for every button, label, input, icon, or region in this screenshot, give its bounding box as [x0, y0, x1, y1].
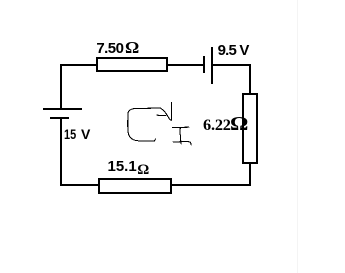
wire: left vertical upper (battery V1 to top-left corner) — [60, 64, 62, 108]
wire: bottom horizontal left (R3 to bottom-left corner) — [60, 184, 98, 186]
battery V1 short plate (negative) — [50, 117, 69, 119]
arrowhead vertical stroke — [170, 103, 172, 121]
current label I bottom bar — [173, 141, 188, 143]
current loop arrow curve — [128, 108, 161, 141]
label V2 value 9.5 V — [218, 43, 249, 58]
current label I stem — [180, 128, 181, 144]
label R1 value 7.50 Ω — [96, 40, 138, 57]
current label I top bar — [173, 126, 190, 128]
label R3 value 15.1 Ω — [108, 159, 150, 175]
wire: right vertical lower (R2 to bottom-right corner) — [249, 163, 251, 186]
resistor R3 (15.1 ohm) — [98, 178, 172, 194]
battery V2 short plate (negative) — [203, 56, 205, 73]
label V1 value 15 V — [64, 127, 90, 141]
arrowhead barb — [157, 114, 166, 116]
label R2 value 6.22 Ω — [203, 114, 247, 135]
wire: right vertical upper (corner to R2) — [249, 64, 251, 94]
wire: bottom horizontal right (corner to R3) — [170, 184, 251, 186]
wire: left vertical lower (corner to battery V1) — [60, 117, 62, 186]
wire: R1 to battery V2 — [168, 64, 203, 66]
battery V1 long plate (positive) — [43, 108, 82, 110]
current loop arrow diagonal into arrowhead — [161, 108, 172, 120]
wire: top-left horizontal (corner to R1) — [60, 64, 98, 66]
battery V2 long plate (positive) — [211, 47, 213, 84]
resistor R1 (7.50 ohm) — [96, 57, 168, 72]
faint paste boundary line — [297, 0, 298, 273]
resistor R2 (6.22 ohm) — [242, 93, 258, 164]
current label I end hook — [188, 142, 191, 145]
wire: battery V2 to top-right corner — [211, 64, 251, 66]
